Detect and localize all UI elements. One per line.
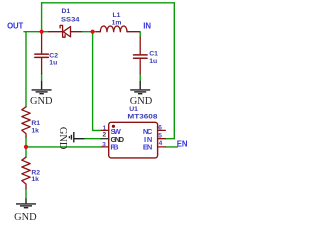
svg-text:3: 3 bbox=[102, 141, 106, 148]
svg-text:GND: GND bbox=[57, 127, 68, 150]
svg-text:C1: C1 bbox=[149, 51, 158, 58]
svg-text:GND: GND bbox=[14, 212, 37, 223]
ground under C2 bbox=[32, 81, 52, 94]
svg-text:1u: 1u bbox=[149, 58, 157, 65]
svg-text:IN: IN bbox=[143, 21, 151, 30]
svg-text:1u: 1u bbox=[49, 60, 57, 67]
U1 pin 4 stub bbox=[158, 146, 166, 148]
wire GND flag to pin 2 bbox=[84, 138, 101, 140]
wire SW node down to pin 1 bbox=[93, 32, 102, 131]
svg-text:SS34: SS34 bbox=[61, 16, 80, 23]
diode D1 schottky cathode bar bbox=[60, 25, 65, 37]
inductor L1 left pin bbox=[97, 31, 101, 33]
diode D1 right pin bbox=[71, 31, 82, 33]
svg-text:R1: R1 bbox=[31, 120, 40, 127]
inductor L1 coil bbox=[100, 26, 127, 32]
U1 pin 3 stub bbox=[101, 146, 108, 148]
wire top OUT rail bbox=[42, 2, 175, 4]
capacitor C1 plates bbox=[134, 55, 148, 58]
wire R1 bottom to junction bbox=[25, 137, 27, 147]
svg-text:GND: GND bbox=[30, 96, 53, 107]
wire IN node corner to C1 bbox=[139, 32, 140, 38]
ground under R2 bbox=[16, 198, 36, 207]
diode D1 left pin bbox=[49, 31, 62, 33]
svg-text:2: 2 bbox=[103, 131, 107, 138]
U1 pin 6 stub bbox=[158, 129, 166, 131]
IC U1 body bbox=[109, 122, 158, 158]
svg-text:EN: EN bbox=[177, 139, 188, 148]
ground under C1 bbox=[130, 81, 150, 94]
capacitor C2 plates bbox=[35, 54, 49, 57]
svg-text:OUT: OUT bbox=[7, 22, 23, 31]
svg-text:U1: U1 bbox=[129, 106, 138, 113]
junction node SW bbox=[91, 30, 95, 34]
svg-text:1m: 1m bbox=[112, 19, 122, 26]
svg-text:L1: L1 bbox=[113, 12, 121, 19]
wire C1 bottom to ground bbox=[139, 74, 141, 81]
wire OUT junction to top bbox=[41, 3, 43, 32]
capacitor C1 top pin bbox=[139, 37, 141, 54]
wire OUT horizontal bbox=[24, 31, 49, 33]
svg-text:5: 5 bbox=[158, 132, 162, 139]
wire pin5 IN to rail bbox=[165, 138, 174, 140]
resistor R1 zigzag bbox=[22, 107, 30, 137]
resistor R2 zigzag bbox=[22, 157, 30, 189]
junction node OUT bbox=[40, 30, 44, 34]
capacitor C2 top pin bbox=[41, 33, 43, 53]
ground flag at U1 pin 2 bbox=[69, 132, 84, 142]
U1 pin1 marker dot bbox=[112, 125, 115, 128]
svg-text:1k: 1k bbox=[31, 176, 39, 183]
wire divider junction to pin 3 FB bbox=[26, 146, 101, 148]
U1 pin 2 stub bbox=[101, 138, 108, 140]
capacitor C2 bottom pin bbox=[41, 58, 43, 74]
wire C2 bottom to ground bbox=[41, 74, 43, 81]
wire pin4 EN stub wire bbox=[165, 146, 177, 148]
wire left rail down to R1 bbox=[25, 32, 27, 107]
capacitor C1 bottom pin bbox=[139, 59, 141, 74]
svg-text:1k: 1k bbox=[31, 128, 39, 135]
junction node FB divider bbox=[24, 145, 28, 149]
svg-text:MT3608: MT3608 bbox=[127, 113, 157, 120]
inductor L1 right pin bbox=[127, 31, 139, 33]
svg-text:4: 4 bbox=[159, 140, 163, 147]
U1 pin 1 stub bbox=[101, 129, 108, 131]
svg-text:EN: EN bbox=[143, 142, 152, 151]
diode D1 triangle bbox=[63, 27, 70, 37]
wire SW node horizontal bbox=[82, 31, 97, 33]
svg-text:6: 6 bbox=[158, 125, 162, 132]
wire junction to R2 top bbox=[25, 147, 27, 157]
wire R2 bottom to ground bbox=[25, 189, 27, 199]
svg-text:FB: FB bbox=[110, 142, 119, 151]
wire right vertical rail bbox=[173, 3, 175, 139]
U1 pin 5 stub bbox=[158, 138, 166, 140]
svg-text:D1: D1 bbox=[62, 8, 71, 15]
